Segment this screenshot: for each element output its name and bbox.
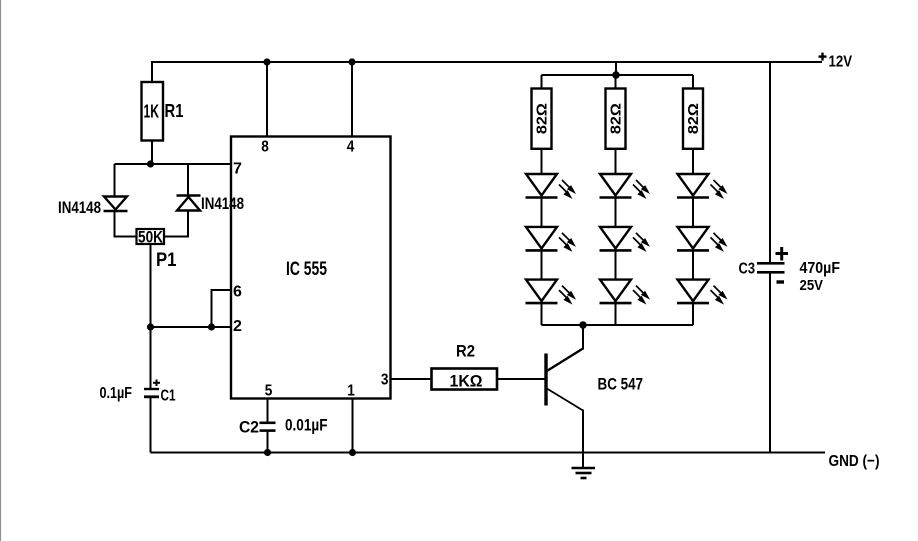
wire: C1 to ground rail — [150, 397, 152, 453]
wire: pin 5 down — [267, 399, 269, 423]
diode D1 IN4148 (pointing down) — [104, 197, 128, 212]
wire: emitter down to ground — [582, 410, 584, 453]
svg-text:R1: R1 — [165, 101, 184, 121]
wire: +12V top rail — [151, 61, 822, 63]
svg-text:IN4148: IN4148 — [58, 199, 101, 217]
capacitor C1 — [144, 380, 160, 397]
svg-text:6: 6 — [233, 284, 242, 301]
wire: col1 resistor to LED1 — [541, 149, 543, 174]
svg-text:C3: C3 — [739, 261, 756, 278]
LED D9 col3 row1 — [677, 174, 728, 199]
svg-text:C1: C1 — [161, 388, 176, 405]
wire: pin 2 horizontal — [151, 326, 232, 328]
svg-text:4: 4 — [347, 139, 355, 156]
LED D10 col3 row2 — [677, 227, 728, 252]
LED D6 col2 row1 — [600, 174, 651, 199]
wire: ground bottom rail — [151, 452, 826, 454]
wire: D2 to pot right — [165, 211, 189, 237]
resistor 82ohm column 1 — [532, 89, 552, 149]
capacitor C2 — [260, 423, 276, 431]
wire: col2 LED3 to bottom bus — [615, 303, 617, 325]
svg-text:7: 7 — [233, 161, 242, 178]
wire: pin 7 horizontal — [115, 163, 232, 165]
wire: col2 LED1-LED2 — [615, 198, 617, 227]
resistor 82ohm column 3 — [683, 89, 703, 149]
wire: collector up to LED bus — [582, 325, 584, 350]
node junction pin2 left — [147, 323, 154, 330]
wire: P1 wiper down to pin2 node — [150, 244, 152, 327]
ground symbol — [572, 453, 596, 479]
LED D11 col3 row3 — [677, 280, 728, 305]
LED D8 col2 row3 — [600, 280, 651, 305]
svg-text:BC 547: BC 547 — [598, 375, 644, 394]
node junction ground/C2 — [264, 449, 271, 456]
capacitor C3 — [757, 247, 788, 282]
wire: pin 8 to rail — [266, 62, 268, 137]
wire: node down to C1 — [150, 327, 152, 388]
node junction rail/pin4 — [348, 58, 355, 65]
resistor R1 body — [142, 82, 164, 141]
svg-text:1KΩ: 1KΩ — [450, 372, 483, 391]
transistor Q1 BC547 — [546, 349, 583, 411]
diode D2 IN4148 (pointing up) — [177, 196, 201, 211]
LED D4 col1 row2 — [526, 227, 577, 252]
potentiometer P1 50K body — [137, 229, 165, 244]
IC U1 555 body — [231, 137, 391, 399]
wire: pin 4 to rail — [351, 62, 353, 137]
wire: right rail upper — [769, 62, 771, 263]
resistor R2 body — [432, 369, 498, 390]
wire: LED bottom bus — [542, 324, 694, 326]
LED D5 col1 row3 — [526, 280, 577, 305]
wire: col3 LED1-LED2 — [692, 198, 694, 227]
wire: R1 to pin7 node — [151, 141, 153, 165]
node junction collector/bus — [579, 321, 587, 329]
svg-text:1K: 1K — [144, 102, 160, 122]
wire: pin 6 stub — [212, 290, 232, 327]
svg-text:8: 8 — [261, 139, 269, 156]
wire: pin 3 to R2 — [391, 378, 432, 380]
node junction ground/pin1 — [349, 449, 356, 456]
wire: D1 to pot left — [115, 211, 137, 237]
wire: col3 LED2-LED3 — [692, 250, 694, 279]
wire: col1 LED3 to bottom bus — [541, 303, 543, 325]
svg-text:P1: P1 — [156, 250, 177, 271]
node junction LED top bus — [612, 71, 620, 79]
resistor 82ohm column 2 — [606, 89, 626, 149]
wire: pin 1 to ground rail — [352, 399, 354, 453]
LED D3 col1 row1 — [526, 174, 577, 199]
svg-text:GND (−): GND (−) — [829, 453, 880, 470]
wire: col2 resistor to LED1 — [615, 149, 617, 174]
wire: right branch down to D2 — [187, 164, 189, 196]
svg-text:2: 2 — [233, 318, 242, 335]
wire: C2 to ground rail — [267, 431, 269, 453]
label +12V plus sign — [819, 53, 827, 61]
LED D7 col2 row2 — [600, 227, 651, 252]
svg-text:5: 5 — [265, 383, 273, 400]
svg-text:1: 1 — [347, 383, 355, 400]
svg-text:12V: 12V — [829, 54, 853, 71]
svg-text:470µF: 470µF — [800, 260, 841, 277]
wire: bus to left resistor — [541, 75, 543, 89]
wire: col2 LED2-LED3 — [615, 250, 617, 279]
wire: bus to middle resistor — [615, 75, 617, 89]
wire: left branch down to D1 — [114, 164, 116, 196]
svg-text:0.1µF: 0.1µF — [100, 385, 133, 402]
node junction pin6/pin2 — [208, 323, 215, 330]
frame left border — [0, 0, 2, 541]
svg-text:IC 555: IC 555 — [286, 259, 327, 280]
svg-text:3: 3 — [381, 372, 389, 389]
wire: top rail to R1 — [151, 62, 153, 82]
wire: col1 LED1-LED2 — [541, 198, 543, 227]
wire: R2 to base — [497, 378, 546, 380]
svg-text:0.01µF: 0.01µF — [285, 416, 328, 435]
wire: col3 LED3 to bottom bus — [692, 303, 694, 325]
node junction rail/pin8 — [263, 58, 270, 65]
svg-text:C2: C2 — [239, 418, 259, 437]
wire: col3 resistor to LED1 — [692, 149, 694, 174]
svg-text:25V: 25V — [800, 278, 824, 294]
svg-text:50K: 50K — [138, 228, 164, 247]
svg-text:IN4148: IN4148 — [201, 195, 244, 213]
node junction below R1 — [147, 160, 154, 167]
wire: rail stub to LED top bus — [615, 62, 617, 75]
svg-text:R2: R2 — [456, 342, 475, 361]
wire: col1 LED2-LED3 — [541, 250, 543, 279]
wire: right rail lower — [769, 272, 771, 452]
wire: bus to right resistor — [692, 75, 694, 89]
wire: LED top bus — [542, 74, 694, 76]
